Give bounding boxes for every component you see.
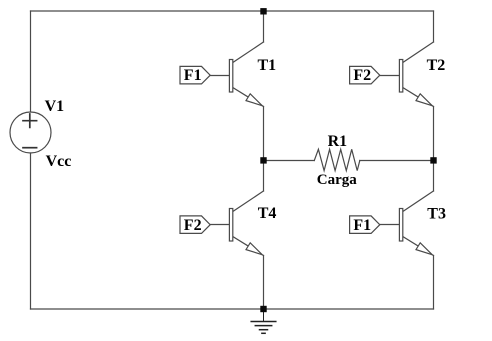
node junction bottom (T4 emitter / ground) bbox=[260, 306, 266, 312]
flag F2 (drive of T2) bbox=[350, 66, 380, 84]
wire left rail upper (top corner down to V1 top) bbox=[30, 11, 32, 112]
node junction top (T1 collector / supply) bbox=[260, 8, 266, 14]
svg-text:V1: V1 bbox=[45, 98, 65, 115]
flag F2 (drive of T4) bbox=[180, 216, 210, 234]
wire T4 collector vertical from middle junction bbox=[263, 161, 265, 192]
node junction middle-left (T1/T4/R1) bbox=[260, 157, 266, 163]
wire T4 emitter vertical down to bottom junction bbox=[263, 256, 265, 310]
transistor T4 bbox=[210, 191, 263, 256]
wire T3 collector vertical from right middle junction bbox=[433, 161, 435, 192]
wire top rail from left corner to top-right corner bbox=[31, 10, 434, 12]
transistor T3 bbox=[380, 191, 434, 256]
wire T3 emitter vertical down to bottom-right corner bbox=[433, 256, 435, 310]
resistor R1 zigzag body bbox=[314, 149, 360, 170]
svg-text:T2: T2 bbox=[427, 57, 446, 74]
svg-text:Vcc: Vcc bbox=[46, 153, 72, 170]
flag F1 (drive of T3) bbox=[350, 216, 380, 234]
wire T1 collector vertical to top junction bbox=[263, 11, 265, 42]
voltage source V1 bbox=[10, 112, 51, 153]
svg-text:F2: F2 bbox=[353, 67, 371, 84]
svg-text:R1: R1 bbox=[328, 133, 348, 150]
ground bbox=[251, 309, 276, 333]
wire T2 emitter vertical down to right middle junction bbox=[433, 107, 435, 161]
svg-text:T4: T4 bbox=[258, 205, 277, 222]
svg-text:F1: F1 bbox=[184, 67, 202, 84]
node junction middle-right (T2/T3/R1) bbox=[430, 157, 436, 163]
wire left rail lower (V1 bottom down to bottom corner) bbox=[30, 153, 32, 309]
wire middle-right from resistor to right junction bbox=[360, 160, 434, 162]
flag F1 (drive of T1) bbox=[180, 66, 210, 84]
svg-text:F1: F1 bbox=[353, 217, 371, 234]
transistor T1 bbox=[210, 42, 263, 107]
wire bottom rail from left corner to bottom-right corner bbox=[31, 308, 434, 310]
wire T2 collector vertical to top-right corner bbox=[433, 11, 435, 42]
svg-text:Carga: Carga bbox=[317, 172, 357, 188]
svg-text:T1: T1 bbox=[258, 57, 277, 74]
wire middle-left from junction to resistor bbox=[264, 160, 315, 162]
svg-text:T3: T3 bbox=[427, 205, 446, 222]
svg-text:F2: F2 bbox=[184, 217, 202, 234]
transistor T2 bbox=[380, 42, 434, 107]
wire T1 emitter vertical down to middle junction bbox=[263, 107, 265, 161]
